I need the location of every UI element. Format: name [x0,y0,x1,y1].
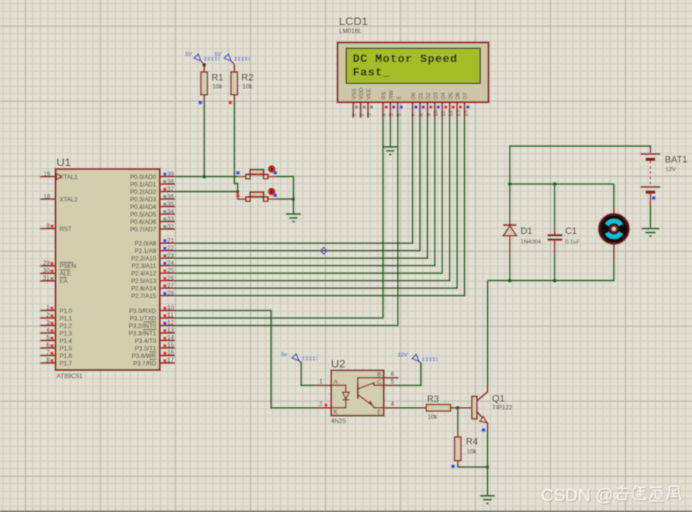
U1 pin 34 P0.5/AD5 [160,213,175,215]
U1 pin 25 P2.4/A12 [160,272,175,274]
U2 pin 6 B [384,377,399,379]
svg-text:D0: D0 [411,92,417,99]
svg-text:R3: R3 [427,394,439,404]
svg-text:21: 21 [167,238,174,244]
ground (buttons) [286,214,301,222]
svg-text:E: E [377,410,381,416]
svg-text:14: 14 [167,336,174,342]
wire 12V top rail [510,146,651,184]
wire button1 to gnd rail [277,177,294,200]
svg-text:P3.0/RXD: P3.0/RXD [129,308,157,315]
svg-text:4N25: 4N25 [331,418,347,425]
LCD screen [346,48,480,83]
svg-text:P3.7/RD: P3.7/RD [133,360,157,367]
wire LCD RW to ground [389,118,391,147]
U1 pin 6 P1.5 [40,347,56,349]
svg-text:RW: RW [389,90,395,100]
svg-text:10: 10 [434,110,440,116]
svg-text:P0.0/AD0: P0.0/AD0 [130,174,157,181]
U1 pin 7 P1.6 [40,355,56,357]
svg-text:39: 39 [167,172,174,178]
U1 pin 30 ALE [40,272,56,274]
junction node buttons gnd [292,198,295,201]
svg-text:CSDN @: CSDN @ [541,485,613,505]
diode D1 1N4004 [509,184,511,218]
wire button2 to ground [277,198,294,200]
U1 pin 9 RST [40,228,56,230]
svg-text:VSS: VSS [352,88,358,99]
svg-text:10k: 10k [243,84,254,91]
svg-text:XTAL2: XTAL2 [60,196,79,203]
svg-text:P3.5/T1: P3.5/T1 [135,345,157,352]
svg-text:11: 11 [167,313,174,319]
wire P3.0 to U2 pin2 K [175,311,315,408]
U2 pin 1 A [315,384,331,386]
svg-text:R2: R2 [242,72,254,82]
wire P2.0 to LCD D0 [175,118,413,243]
junction bottom/C1 [553,279,557,283]
svg-text:12: 12 [167,321,174,327]
svg-text:37: 37 [167,187,174,193]
svg-text:34: 34 [167,209,174,215]
U2 pin 5 C [384,384,399,386]
junction rail/C1 [553,182,557,186]
wire P2.3 to LCD D3 [175,118,435,266]
svg-text:10k: 10k [213,84,224,91]
wire P2.4 to LCD D4 [175,118,442,273]
svg-text:P1.6: P1.6 [60,353,73,360]
svg-text:15: 15 [167,343,174,349]
origin marker (blue diamond on P2.1 wire) [320,247,327,254]
junction node R3/R4/Q1 base [456,406,460,410]
push-button 1 (to P0.0) [238,176,246,178]
U1 pin 26 P2.5/A13 [160,280,175,282]
svg-text:P2.6/A14: P2.6/A14 [131,286,157,293]
svg-text:D1: D1 [521,226,533,236]
svg-text:8: 8 [419,113,425,116]
resistor R2 [233,65,235,72]
svg-text:P0.1/AD1: P0.1/AD1 [130,181,157,188]
svg-text:4: 4 [382,113,388,116]
U1 pin 2 P1.1 [40,317,56,319]
svg-text:R1: R1 [212,72,224,82]
svg-text:D1: D1 [419,92,425,99]
motor M1 [613,184,615,206]
U1 pin 14 P3.4/T0 [160,340,175,342]
junction node emitter/R4 [486,466,489,469]
svg-text:P2.7/A15: P2.7/A15 [131,293,157,300]
svg-text:P1.1: P1.1 [60,315,73,322]
wire Q1 emitter down [487,430,489,467]
svg-text:6: 6 [397,113,403,116]
terminal squares button2 [236,194,239,197]
svg-text:P1.2: P1.2 [60,323,73,330]
U1 pin 38 P0.1/AD1 [160,183,175,185]
svg-text:VEE: VEE [367,88,373,99]
svg-text:P1.3: P1.3 [60,330,73,337]
svg-text:P3.4/T0: P3.4/T0 [135,338,157,345]
transistor Q1 TIP122 [472,396,477,419]
resistor R4 [457,408,459,431]
U2 internal LED [331,385,346,392]
optocoupler U2 4N25 body [331,370,384,415]
terminal square R1 bottom [199,101,202,104]
svg-text:0.1uF: 0.1uF [565,239,580,245]
U2 pin 2 K [315,407,331,409]
U1 pin 21 P2.0/A8 [160,242,175,244]
svg-text:K: K [334,410,338,416]
LCD LCD1 body [338,43,489,103]
svg-text:13: 13 [456,110,462,116]
svg-text:D3: D3 [433,92,439,99]
svg-text:P0.4/AD4: P0.4/AD4 [130,204,157,211]
U1 pin 8 P1.7 [40,362,56,364]
svg-text:D5: D5 [448,92,454,99]
terminal square Q1 emitter [482,428,485,431]
svg-text:TIP122: TIP122 [492,404,513,411]
svg-text:RST: RST [60,226,72,233]
svg-text:P0.2/AD2: P0.2/AD2 [130,189,157,196]
svg-text:P0.5/AD5: P0.5/AD5 [130,211,157,218]
U1 pin 24 P2.3/A11 [160,265,175,267]
svg-text:22: 22 [167,246,174,252]
wire Q1 collector to motor rail [487,281,489,386]
ground (LCD RW) [383,147,398,155]
svg-text:7: 7 [412,113,418,116]
svg-text:24: 24 [167,261,174,267]
svg-text:C1: C1 [565,226,577,236]
svg-text:P1.7: P1.7 [60,360,73,367]
watermark CSDN [541,485,682,506]
U2 pin 4 E [384,407,399,409]
U1 pin 32 P0.7/AD7 [160,228,175,230]
U1 pin 12 P3.2/INT0 [160,325,175,327]
svg-text:16: 16 [167,351,174,357]
svg-text:12: 12 [449,110,455,116]
junction node button2/P0.2 [236,190,239,193]
battery BAT1 [641,153,661,155]
U1 pin 23 P2.2/A10 [160,257,175,259]
svg-text:LM016L: LM016L [339,28,362,35]
capacitor C1 0.1uF [554,184,556,228]
svg-text:10k: 10k [467,449,478,456]
wire junction to Q1 base [458,407,472,409]
U1 pin 36 P0.3/AD3 [160,198,175,200]
U1 pin 28 P2.7/A15 [160,295,175,297]
wire motor supply rail [510,183,614,185]
U1 pin 1 P1.0 [40,310,56,312]
svg-text:Fast_: Fast_ [353,68,390,80]
wire P3.1 to LCD RS [175,118,383,318]
svg-text:32: 32 [167,224,174,230]
wire R4 to emitter node [458,465,488,467]
push-button 2 (to P0.2) [238,192,246,200]
wire P2.1 to LCD D1 [175,118,420,251]
U1 pin 19 XTAL1 [40,176,56,178]
terminal squares button1 [236,171,239,174]
svg-text:2: 2 [360,113,366,116]
svg-text:1: 1 [352,113,358,116]
node R1 top [202,63,206,67]
svg-text:RS: RS [382,91,388,99]
U1 pin 4 P1.3 [40,332,56,334]
svg-text:17: 17 [167,358,174,364]
terminal square R2 bottom [229,101,232,104]
U1 pin 27 P2.6/A14 [160,287,175,289]
wire P3.2 to LCD E [175,118,398,326]
svg-text:14: 14 [463,110,469,116]
svg-text:10k: 10k [428,414,439,421]
svg-text:D6: D6 [456,92,462,99]
svg-text:10: 10 [167,306,174,312]
wire motor bottom rail [488,259,614,281]
U1 pin 18 XTAL2 [40,198,56,200]
svg-text:Q1: Q1 [492,393,505,404]
svg-text:P1.0: P1.0 [60,308,73,315]
svg-text:D2: D2 [426,92,432,99]
svg-text:P2.5/A13: P2.5/A13 [131,278,157,285]
svg-text:P1.4: P1.4 [60,338,73,345]
svg-text:ALE: ALE [60,271,72,278]
svg-text:P3.1/TXD: P3.1/TXD [130,315,157,322]
svg-text:1N4004: 1N4004 [521,239,542,245]
wire 5V to R2 [231,61,234,65]
wire P2.6 to LCD D6 [175,118,457,288]
U1 pin 22 P2.1/A9 [160,250,175,252]
wire P0.0 net to R1 and button1 [175,176,238,178]
svg-text:P3.6/WR: P3.6/WR [132,353,157,360]
wire P2.2 to LCD D2 [175,118,427,258]
wire P2.5 to LCD D5 [175,118,450,281]
svg-text:P0.7/AD7: P0.7/AD7 [130,226,157,233]
svg-text:P2.4/A12: P2.4/A12 [131,271,157,278]
U1 pin 33 P0.6/AD6 [160,221,175,223]
svg-text:VDD: VDD [359,88,365,100]
svg-text:23: 23 [167,253,174,259]
svg-text:DC Motor Speed: DC Motor Speed [353,54,458,66]
wire P0.2 net row37 [175,191,238,193]
svg-text:P0.6/AD6: P0.6/AD6 [130,219,157,226]
U1 pin 31 EA [40,280,56,282]
svg-text:38: 38 [167,179,174,185]
svg-text:36: 36 [167,194,174,200]
wire 12V to U2 C [399,363,421,386]
U1 pin 37 P0.2/AD2 [160,191,175,193]
wire emitter node to ground [487,467,489,495]
svg-text:D7: D7 [463,92,469,99]
junction rail/D1 [508,182,512,186]
svg-text:33: 33 [167,217,174,223]
terminal square R4 bottom [451,465,454,468]
svg-text:PSEN: PSEN [60,263,77,270]
U2 internal phototransistor [358,378,384,385]
U1 pin 16 P3.6/WR [160,355,175,357]
wire U2 E to R3 [399,407,418,409]
svg-text:29: 29 [43,261,50,267]
resistor R3 [418,407,427,409]
svg-text:P3.2/INT0: P3.2/INT0 [129,323,157,330]
wire P2.7 to LCD D7 [175,118,465,296]
U1 pin 17 P3.7/RD [160,362,175,364]
U1 pin 13 P3.3/INT1 [160,332,175,334]
svg-text:12V: 12V [398,353,409,359]
svg-text:13: 13 [167,328,174,334]
wire BAT1 to ground [649,194,651,206]
svg-text:19: 19 [44,172,51,178]
svg-text:P2.0/A8: P2.0/A8 [135,241,157,248]
svg-text:AT89C51: AT89C51 [57,373,84,380]
svg-text:LCD1: LCD1 [339,16,368,28]
svg-text:28: 28 [167,291,174,297]
IC U1 AT89C51 body [56,169,160,370]
ground (BAT1) [642,229,660,237]
sheet bottom edge [0,511,692,512]
U1 pin 5 P1.4 [40,340,56,342]
svg-text:EA: EA [60,278,69,285]
svg-text:XTAL1: XTAL1 [60,174,79,181]
U1 pin 11 P3.1/TXD [160,317,175,319]
svg-text:27: 27 [167,283,174,289]
svg-text:30: 30 [43,269,50,275]
svg-text:9: 9 [426,113,432,116]
svg-text:5: 5 [389,113,395,116]
svg-text:31: 31 [43,276,50,282]
junction node R1/P0.0 [202,175,206,179]
U1 pin 15 P3.5/T1 [160,347,175,349]
svg-text:35: 35 [167,202,174,208]
svg-text:12V: 12V [666,167,676,173]
ground (Q1 emitter) [480,496,495,504]
svg-text:25: 25 [167,268,174,274]
svg-text:3: 3 [367,113,373,116]
U1 pin 10 P3.0/RXD [160,310,175,312]
svg-text:P2.2/A10: P2.2/A10 [131,256,157,263]
U1 pin 39 P0.0/AD0 [160,176,175,178]
svg-text:R4: R4 [466,437,478,447]
wire R1 to P0.0 row [203,101,205,177]
svg-text:P2.1/A9: P2.1/A9 [135,248,157,255]
wire R2 down to button2 junction [234,101,237,192]
terminal square BAT1 [652,196,655,199]
svg-text:E: E [396,96,402,100]
svg-text:11: 11 [441,111,447,117]
resistor R1 [203,65,205,72]
wire 5V to R1 [201,61,204,65]
svg-text:D4: D4 [441,92,447,99]
svg-text:U1: U1 [57,157,71,169]
svg-text:P0.3/AD3: P0.3/AD3 [130,196,157,203]
svg-text:26: 26 [167,276,174,282]
svg-text:BAT1: BAT1 [665,154,688,164]
svg-text:U2: U2 [331,358,345,370]
U1 pin 35 P0.4/AD4 [160,206,175,208]
U1 pin 29 PSEN [40,265,56,267]
svg-text:18: 18 [44,194,51,200]
svg-text:P3.3/INT1: P3.3/INT1 [129,330,157,337]
svg-text:P1.5: P1.5 [60,345,73,352]
U1 pin 3 P1.2 [40,325,56,327]
wire 5v to U2 A [301,362,315,385]
svg-text:P2.3/A11: P2.3/A11 [132,263,157,270]
junction bottom/D1 [508,279,512,283]
